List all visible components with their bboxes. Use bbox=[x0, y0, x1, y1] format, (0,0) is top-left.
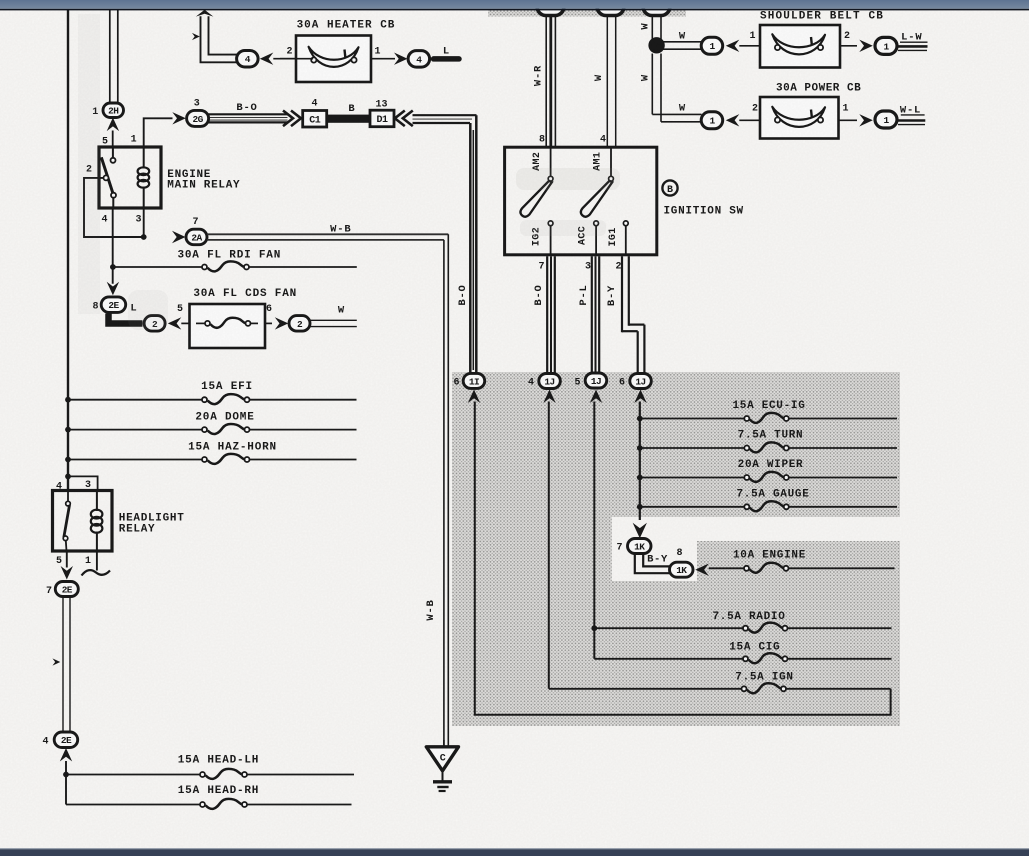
wire to headlight relay pin 3 bbox=[68, 476, 98, 491]
wire ENGINE row bbox=[709, 567, 744, 569]
wire B thick bbox=[327, 115, 371, 123]
wire HAZ row bbox=[68, 459, 202, 461]
arrow up 1J b bbox=[590, 390, 602, 404]
wire HEAD-LH row bbox=[66, 774, 200, 776]
AM2 pivot bbox=[548, 176, 553, 181]
node RDI FAN tap bbox=[110, 264, 116, 270]
wire right U loop bbox=[475, 402, 891, 715]
wire pin2 loop bbox=[84, 178, 144, 237]
wire B-O vertical to 1I bbox=[469, 123, 472, 373]
connector 2 cds left bbox=[144, 316, 165, 332]
connector 1J b bbox=[585, 373, 607, 388]
connector 2E bottom-left bbox=[55, 582, 78, 597]
wire B-Y jog bbox=[621, 256, 623, 332]
wire through CDS box bbox=[196, 322, 205, 324]
wire DOME row bbox=[68, 429, 202, 431]
wire to CDS box bbox=[181, 322, 196, 324]
fuse 7.5A IGN bbox=[742, 683, 787, 693]
connector 2H bbox=[103, 103, 124, 118]
connector C1 bbox=[303, 111, 327, 128]
connector 2A bbox=[186, 229, 207, 245]
fuse 15A CIG bbox=[743, 653, 788, 663]
connector 1I bbox=[463, 373, 485, 388]
fuse 15A ECU-IG bbox=[744, 413, 789, 423]
connector 1J a bbox=[539, 374, 561, 389]
IG1 contact bbox=[623, 221, 628, 226]
connector 2E lower bbox=[54, 732, 77, 748]
arrow into 1K b bbox=[695, 564, 709, 576]
arrow up 1J a bbox=[543, 390, 555, 404]
arrow out heater bbox=[394, 53, 408, 65]
fuse 30A FL RDI FAN bbox=[202, 261, 249, 271]
wire relay pin4 down bbox=[112, 208, 114, 284]
relay switch contact top bbox=[111, 158, 116, 163]
CDS FAN box bbox=[190, 304, 266, 348]
node W junction bbox=[648, 37, 664, 53]
wire power right bbox=[839, 119, 858, 121]
AM2 lever bbox=[520, 181, 551, 217]
shoulder belt CB box bbox=[760, 25, 840, 68]
connector 2G bbox=[187, 110, 209, 126]
arrow up to header bbox=[196, 10, 214, 17]
engine main relay box bbox=[99, 147, 161, 208]
hl blade bbox=[64, 505, 70, 538]
wire EFI row bbox=[68, 399, 202, 401]
wire GAUGE row bbox=[640, 506, 745, 508]
fuse 10A ENGINE bbox=[744, 563, 789, 573]
wire heater box right bbox=[371, 58, 395, 60]
node HAZ-HORN tap bbox=[65, 457, 71, 463]
chevrons right bbox=[283, 111, 301, 127]
arrow into 1 power bbox=[726, 114, 740, 126]
relay blade bbox=[101, 157, 113, 193]
node EFI tap bbox=[65, 397, 71, 403]
connector 1 power right bbox=[875, 111, 897, 128]
scan smudge band left bbox=[78, 14, 100, 314]
headlight relay box bbox=[53, 491, 113, 552]
AM1 pivot bbox=[609, 176, 614, 181]
hl coil lead down bbox=[96, 532, 98, 552]
small arrow marker W bbox=[52, 658, 60, 665]
wire main left vertical bbox=[67, 10, 69, 491]
node DOME tap bbox=[65, 427, 71, 433]
node HEAD-LH tap bbox=[63, 772, 69, 778]
wire pair to 2H bbox=[109, 10, 111, 104]
wire W pair AM1 bbox=[606, 15, 608, 148]
partial connector (W feed) bbox=[597, 0, 624, 16]
wire W down to power CB bbox=[651, 54, 653, 115]
relay pin5 inner lead bbox=[112, 147, 114, 158]
wire CDS right bbox=[265, 322, 272, 324]
wire CIG row bbox=[594, 658, 743, 660]
heater CB symbol bbox=[309, 47, 359, 67]
connector 4 heater right bbox=[408, 51, 430, 68]
relay contact lead bbox=[112, 198, 114, 208]
fuse 15A HEAD-RH bbox=[200, 799, 247, 809]
footer bar bbox=[0, 848, 1029, 849]
wire RDI FAN row bbox=[113, 266, 202, 268]
connector 1 shoulder left bbox=[701, 37, 723, 54]
wire IG2 feed down bbox=[548, 402, 550, 689]
arrow into 2 left bbox=[168, 317, 182, 329]
wire to HEAD rows bbox=[65, 761, 67, 805]
IG2 contact bbox=[548, 221, 553, 226]
wire 1K link bbox=[635, 554, 670, 574]
fuse 20A WIPER bbox=[744, 472, 789, 482]
AM1 lead bbox=[610, 147, 612, 176]
partial connector (W-R feed) bbox=[537, 0, 564, 16]
wire IG2 bundle bbox=[546, 256, 548, 373]
node WIPER tap bbox=[637, 475, 643, 481]
arrow down 2E bbox=[61, 566, 73, 580]
arrow up 1J c bbox=[634, 390, 646, 404]
node TURN tap bbox=[637, 445, 643, 451]
fuse 20A DOME bbox=[202, 424, 250, 434]
relay blade lower bbox=[111, 193, 116, 198]
partial connector (W feed 2) bbox=[643, 0, 670, 16]
squiggle wire end bbox=[82, 570, 111, 575]
arrow into 2H bbox=[107, 118, 119, 132]
ground stem bbox=[442, 771, 444, 781]
arrow out power bbox=[859, 114, 873, 126]
connector 1 power left bbox=[701, 112, 723, 129]
wire W-R bundle bbox=[545, 15, 547, 148]
node headlight relay branch bbox=[65, 474, 71, 480]
arrow into 2G bbox=[172, 112, 186, 124]
wire W-L stub bbox=[901, 114, 925, 116]
ground C triangle bbox=[426, 747, 458, 771]
wire to SB box bbox=[739, 45, 760, 47]
node RADIO tap bbox=[591, 625, 597, 631]
scan smudge 2E area bbox=[128, 290, 168, 330]
wire HEAD-RH row bbox=[66, 804, 200, 806]
wire heater box pin2 bbox=[280, 58, 313, 60]
connector 2 cds right bbox=[289, 316, 310, 332]
IG2 lead bbox=[550, 226, 552, 255]
wire hl pin1 down bbox=[96, 551, 98, 571]
fuse 7.5A RADIO bbox=[743, 623, 788, 633]
node GAUGE tap bbox=[637, 504, 643, 510]
hl coil bbox=[91, 510, 103, 533]
wire B-O quad to chevrons bbox=[209, 113, 288, 115]
relay coil lead up bbox=[143, 147, 145, 169]
connector 1J c bbox=[630, 374, 652, 389]
wire junction to conn 1 bbox=[663, 41, 702, 43]
power CB symbol bbox=[772, 107, 825, 127]
wire D1 to corner bbox=[413, 114, 477, 116]
wire RADIO row bbox=[594, 627, 743, 629]
ignition switch box bbox=[505, 147, 657, 255]
wire heater vertical pair bbox=[201, 16, 238, 62]
hl coil lead up bbox=[96, 491, 98, 512]
fuse 30A FL CDS FAN bbox=[205, 318, 251, 328]
wire relay pin5 to 2H bbox=[112, 131, 114, 148]
wire pin3 to 2A junction bbox=[143, 208, 145, 237]
wire ACC feed down bbox=[593, 402, 595, 659]
node ECU-IG tap bbox=[637, 416, 643, 422]
power CB box bbox=[760, 97, 839, 139]
arrow down to 1K bbox=[633, 523, 647, 539]
relay coil bbox=[138, 167, 150, 187]
wire ACC bundle bbox=[591, 256, 593, 373]
connector 1K a bbox=[628, 539, 652, 554]
wire W-B into ground bbox=[443, 740, 445, 747]
wire L-W stub bbox=[900, 41, 928, 43]
connector 1K b bbox=[670, 562, 694, 577]
wire W-B vertical bbox=[447, 234, 449, 746]
header bar bbox=[0, 0, 1029, 9]
wire W corner to power CB bbox=[652, 113, 701, 115]
AM2 lead bbox=[550, 147, 552, 176]
hl pin4 inner lead bbox=[67, 491, 69, 502]
wire fuse bus vertical bbox=[639, 402, 641, 521]
connector 1 SB right bbox=[875, 37, 897, 54]
arrow into 1 shoulder bbox=[726, 40, 740, 52]
AM1 lever bbox=[581, 181, 612, 217]
arrow up 1I bbox=[468, 390, 480, 404]
wire WIPER row bbox=[640, 477, 745, 479]
relay contact pin2 bbox=[104, 175, 109, 180]
arrow into 4 left bbox=[260, 53, 274, 65]
arrow down to 2E bbox=[107, 282, 119, 296]
wire L thick bbox=[109, 314, 143, 324]
wire hl pin5 down bbox=[65, 541, 68, 552]
circle B ignition bbox=[662, 180, 677, 195]
arrow out CDS bbox=[275, 317, 289, 329]
arrow up into 2E lower bbox=[60, 748, 72, 762]
fuse 15A HEAD-LH bbox=[200, 769, 247, 779]
ground bars bbox=[433, 780, 452, 783]
connector D1 bbox=[370, 110, 394, 127]
arrow into 2A bbox=[172, 231, 186, 243]
hl switch contact bbox=[66, 501, 71, 506]
fuse 15A HAZ-HORN bbox=[202, 454, 250, 464]
connector 2E top bbox=[101, 297, 126, 313]
wire W pair down from header bbox=[651, 15, 653, 45]
wire ECU-IG row bbox=[640, 418, 745, 420]
arrow out SB bbox=[859, 40, 873, 52]
fuse 7.5A GAUGE bbox=[744, 501, 789, 511]
SB CB symbol bbox=[772, 34, 825, 54]
wire IGN row bbox=[549, 688, 742, 690]
shaded fuse block region bbox=[452, 372, 900, 726]
fuse 15A EFI bbox=[202, 394, 250, 404]
wire W stub cds bbox=[310, 319, 357, 321]
small arrow marker bbox=[192, 33, 200, 40]
wire SB right bbox=[840, 45, 857, 47]
wire W-B horizontal bbox=[207, 233, 448, 235]
connector 4 heater left bbox=[237, 51, 259, 68]
wire L stub bbox=[434, 56, 460, 62]
wire to heater box bbox=[273, 58, 296, 60]
fuse 7.5A TURN bbox=[744, 442, 789, 452]
chevrons left bbox=[395, 111, 413, 127]
IG1 lead bbox=[625, 226, 627, 255]
wire TURN row bbox=[640, 447, 745, 449]
wire W pair down bbox=[62, 597, 64, 732]
ACC lead bbox=[595, 226, 597, 255]
top stipple band bbox=[488, 9, 686, 17]
relay coil lead down bbox=[143, 187, 145, 209]
wire coil riser to 2G bbox=[144, 118, 173, 147]
ACC contact bbox=[594, 221, 599, 226]
node 2A junction bbox=[141, 234, 147, 240]
hl contact lower bbox=[63, 536, 68, 541]
scan smudge ignition bbox=[516, 168, 620, 190]
heater CB box bbox=[296, 36, 371, 83]
wire to power box bbox=[739, 119, 760, 121]
